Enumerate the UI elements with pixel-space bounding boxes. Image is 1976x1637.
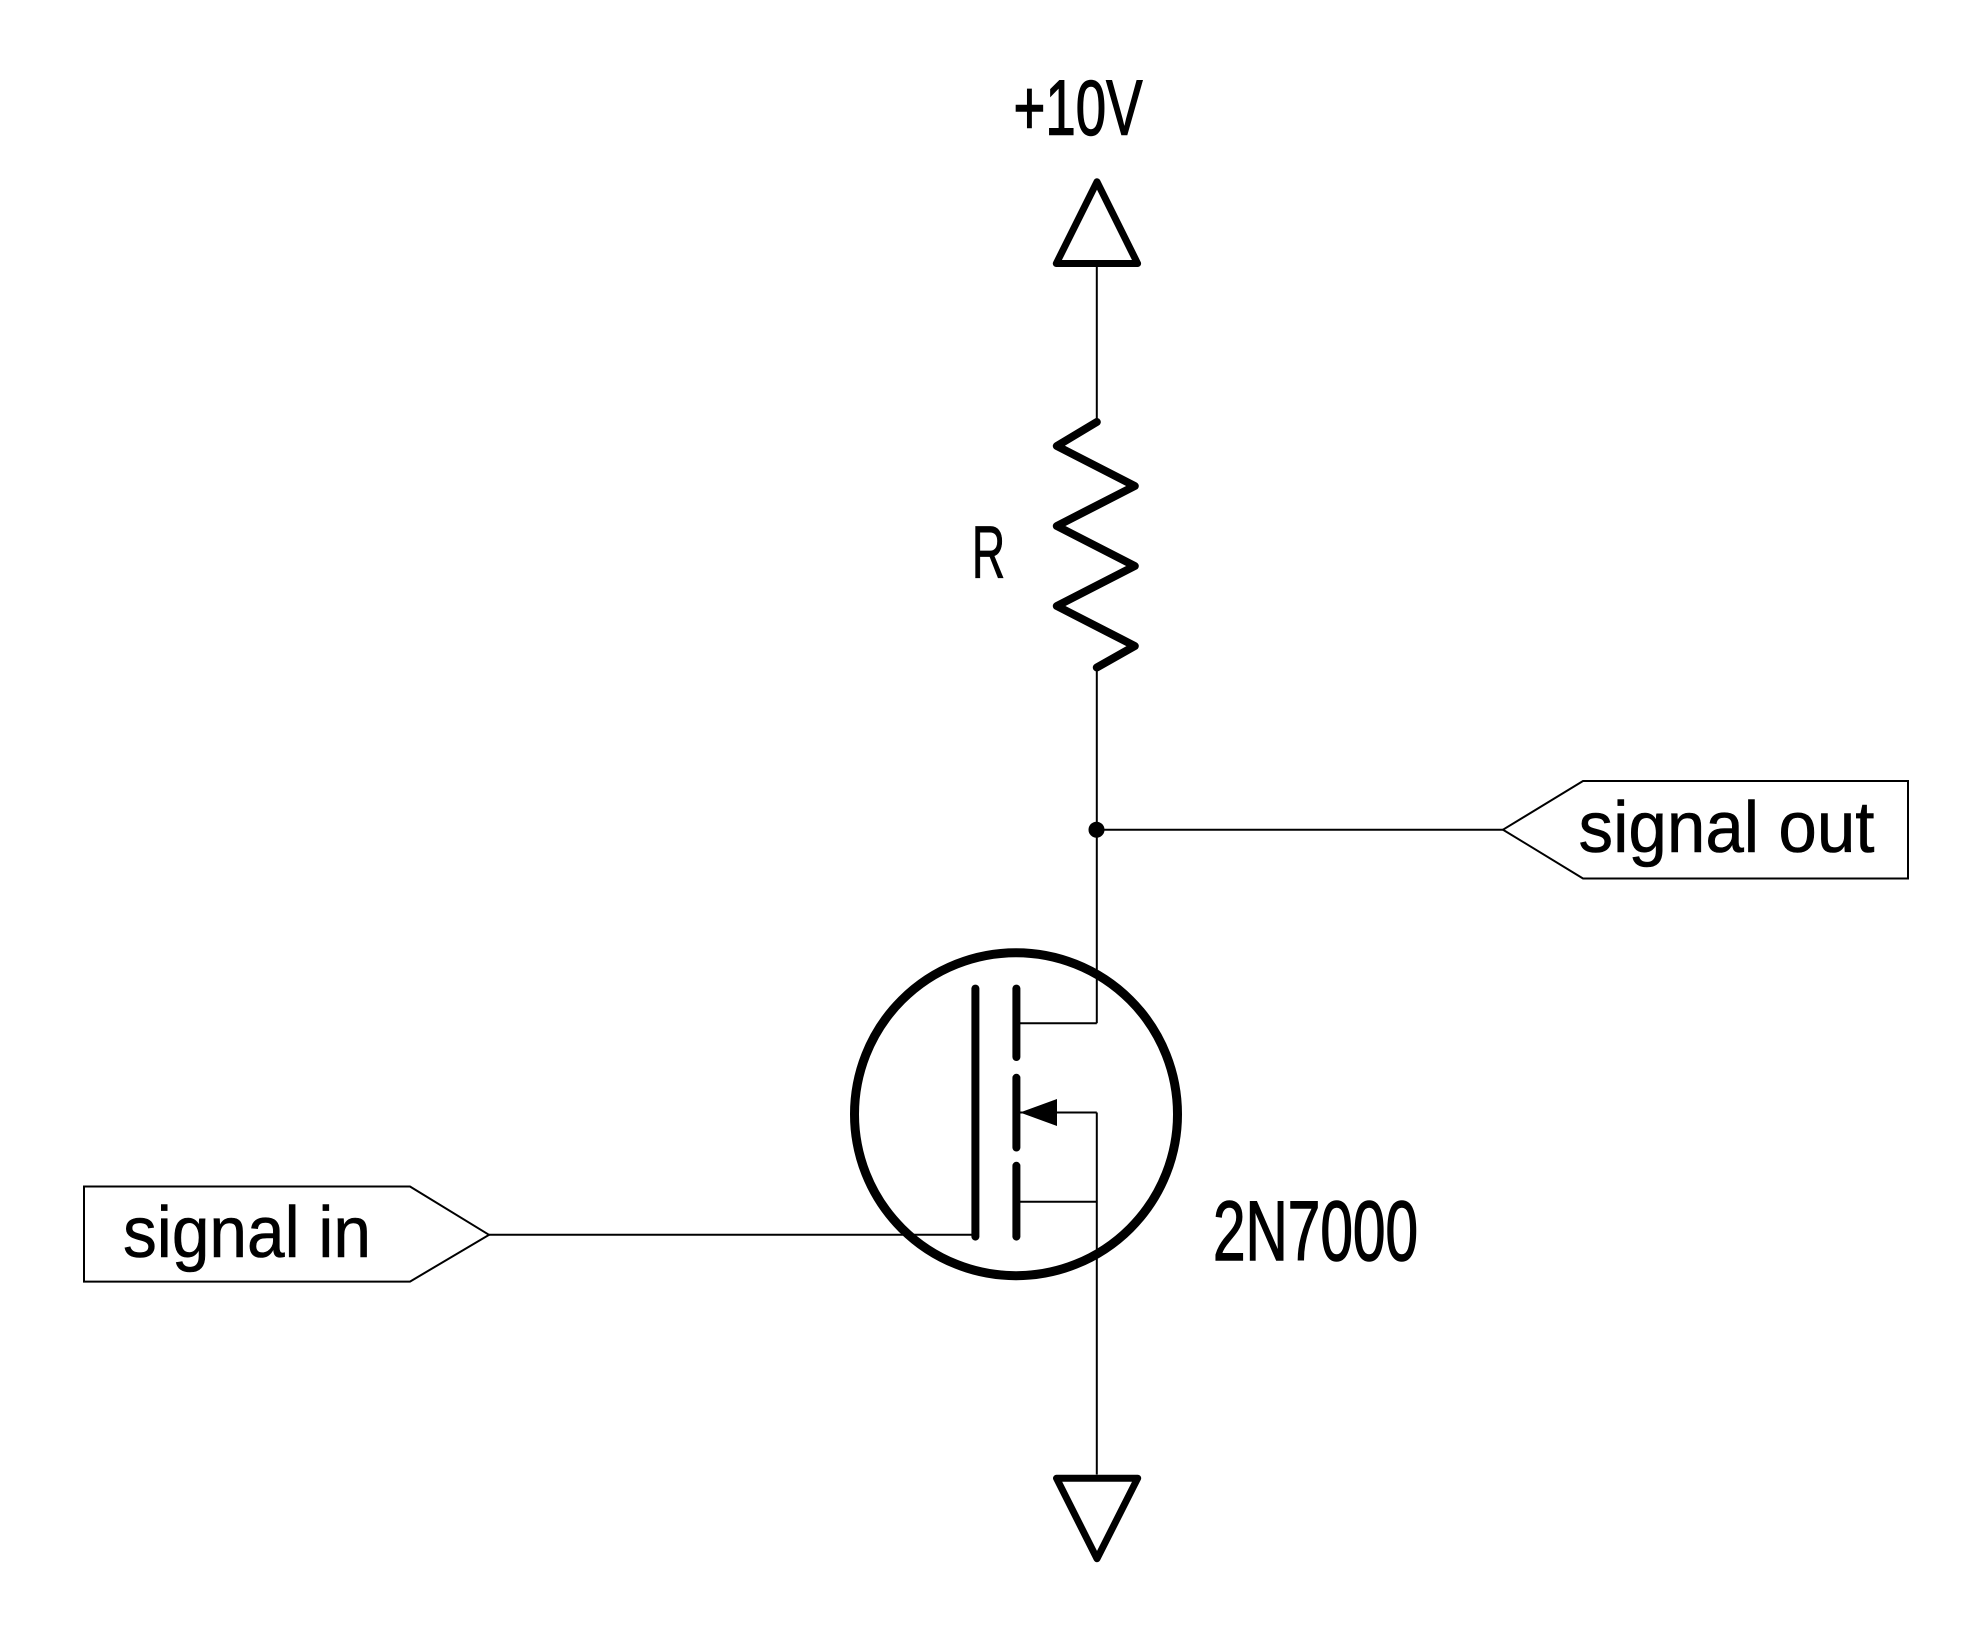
node junction dot — [1089, 822, 1105, 838]
transistor Q1 channel segment source — [1012, 1166, 1020, 1237]
wire VCC to resistor — [1096, 264, 1098, 423]
ground symbol — [1057, 1478, 1138, 1559]
svg-text:signal in: signal in — [123, 1193, 371, 1273]
signal out flag outline — [1503, 781, 1908, 879]
svg-text:+10V: +10V — [1014, 66, 1143, 152]
wire node to drain — [1096, 830, 1098, 1024]
transistor Q1 gate line — [971, 989, 979, 1237]
power symbol VCC triangle — [1056, 182, 1137, 264]
wire resistor to node — [1096, 668, 1098, 830]
wire body-source down to ground — [1096, 1113, 1098, 1475]
svg-text:R: R — [972, 511, 1006, 594]
body pin wire — [1020, 1112, 1097, 1114]
svg-text:signal out: signal out — [1579, 788, 1875, 868]
transistor Q1 body circle — [855, 953, 1178, 1276]
resistor R — [1057, 422, 1135, 668]
svg-text:2N7000: 2N7000 — [1213, 1184, 1418, 1278]
signal in flag outline — [84, 1187, 489, 1282]
transistor Q1 channel segment body — [1012, 1078, 1020, 1148]
source pin wire — [1016, 1201, 1096, 1203]
wire node to signal out — [1097, 829, 1503, 831]
wire signal in to gate — [489, 1234, 975, 1236]
transistor Q1 channel segment drain — [1012, 989, 1020, 1057]
body arrow into channel — [1020, 1099, 1057, 1126]
drain pin wire — [1016, 1022, 1096, 1024]
